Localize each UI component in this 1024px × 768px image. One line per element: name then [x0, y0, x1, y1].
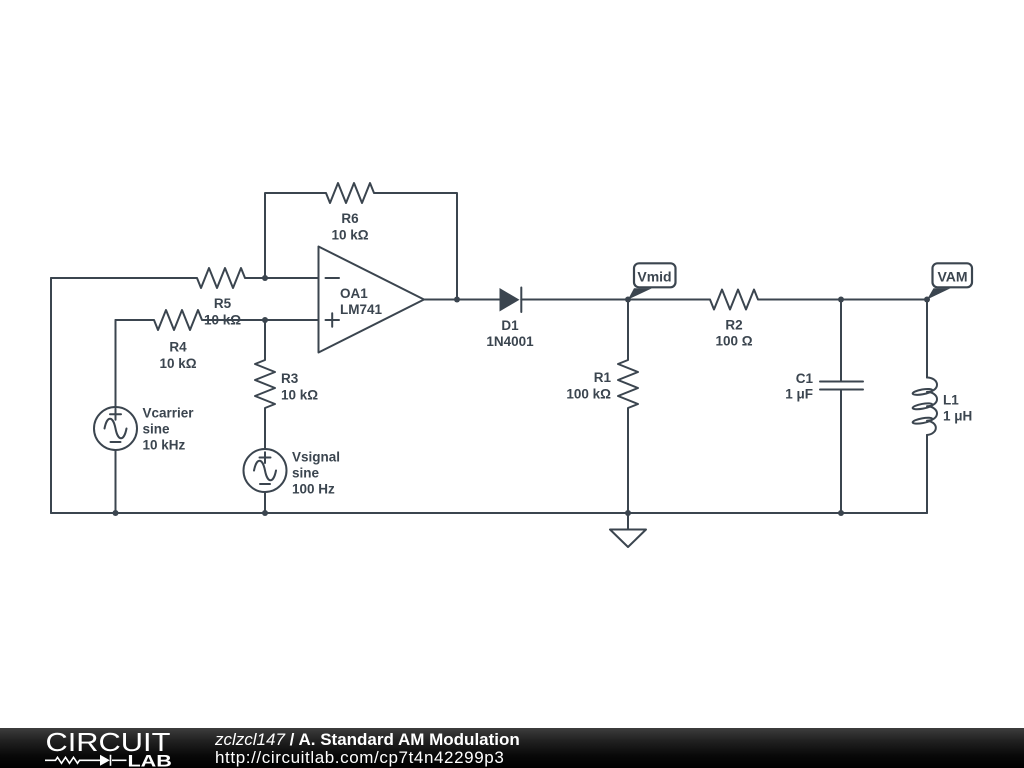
svg-text:sine: sine	[143, 422, 171, 437]
svg-text:1 μF: 1 μF	[785, 387, 813, 402]
svg-text:R3: R3	[281, 371, 299, 386]
svg-text:100 Hz: 100 Hz	[292, 482, 335, 497]
svg-text:10 kΩ: 10 kΩ	[281, 388, 318, 403]
svg-text:10 kΩ: 10 kΩ	[204, 313, 241, 328]
svg-text:Vcarrier: Vcarrier	[143, 406, 195, 421]
svg-text:C1: C1	[796, 371, 814, 386]
svg-text:10 kΩ: 10 kΩ	[159, 356, 196, 371]
svg-text:100 kΩ: 100 kΩ	[566, 387, 611, 402]
svg-text:sine: sine	[292, 466, 320, 481]
svg-text:LAB: LAB	[128, 751, 172, 768]
svg-text:100 Ω: 100 Ω	[715, 334, 752, 349]
svg-text:R5: R5	[214, 296, 232, 311]
svg-text:10 kHz: 10 kHz	[143, 438, 186, 453]
svg-text:L1: L1	[943, 393, 959, 408]
svg-text:Vmid: Vmid	[637, 269, 671, 285]
svg-text:R2: R2	[725, 318, 742, 333]
svg-text:R1: R1	[594, 370, 612, 385]
svg-text:1N4001: 1N4001	[486, 334, 534, 349]
svg-text:R4: R4	[169, 340, 187, 355]
svg-text:LM741: LM741	[340, 302, 383, 317]
svg-text:D1: D1	[501, 318, 519, 333]
svg-text:OA1: OA1	[340, 286, 368, 301]
svg-text:VAM: VAM	[937, 269, 967, 285]
svg-text:Vsignal: Vsignal	[292, 450, 340, 465]
svg-text:R6: R6	[341, 211, 359, 226]
svg-text:10 kΩ: 10 kΩ	[331, 228, 368, 243]
svg-text:1 μH: 1 μH	[943, 409, 972, 424]
